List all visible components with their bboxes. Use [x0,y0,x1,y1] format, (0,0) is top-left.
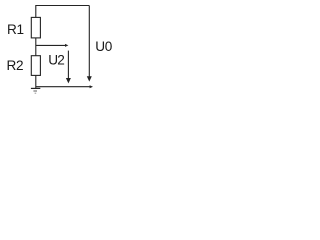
voltage arrow U2 [66,51,71,84]
resistor R2 [31,56,40,76]
wire [35,75,37,88]
svg-text:R2: R2 [7,58,24,73]
wire [36,44,69,47]
wire [36,6,90,18]
resistor R1 [31,17,40,38]
svg-text:R1: R1 [7,22,24,37]
wire [35,38,37,56]
wire [36,85,93,88]
ground [31,88,40,93]
svg-text:U0: U0 [95,39,113,54]
voltage arrow U0 [87,6,92,82]
svg-text:U2: U2 [48,53,64,68]
